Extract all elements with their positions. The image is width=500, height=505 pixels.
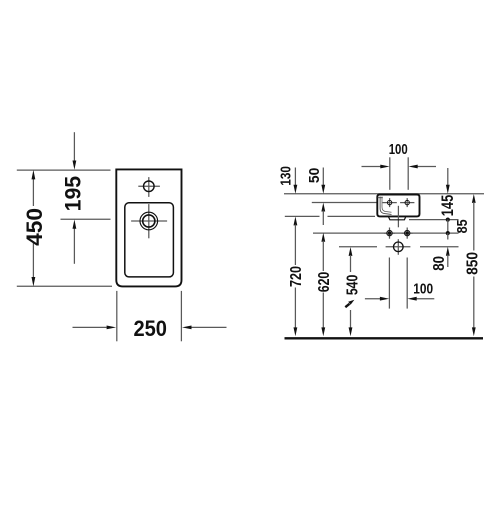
dim 130 top arrow (294, 168, 296, 187)
dim 130 bottom / 720 top arrow (294, 217, 298, 226)
mounting hole right (402, 232, 413, 234)
drain trapezoid below basin (388, 216, 406, 219)
basin outer outline (plan) (116, 169, 181, 286)
dim 540 line (350, 255, 352, 272)
extension line top (450 ref) (17, 169, 111, 171)
arrow 540 bottom (349, 327, 353, 336)
svg-text:720: 720 (288, 266, 305, 287)
tap hole right (elevation) (400, 202, 414, 204)
tap hole (plan) circle (144, 181, 155, 192)
svg-text:100: 100 (413, 281, 433, 298)
arrow 620 bottom (321, 327, 325, 336)
lower 100 extension lines (388, 258, 390, 309)
dim 50 top arrow (322, 168, 324, 187)
drain outer circle (140, 212, 158, 230)
top 100 right arrow (416, 166, 436, 168)
dim 50 bottom arrow (321, 203, 325, 212)
arrow 450 bottom (32, 277, 36, 287)
extension lines 250 (116, 291, 118, 341)
dot 145 end (446, 218, 450, 222)
drain circle (elevation) (394, 242, 404, 252)
fixing bottom level line (409, 219, 459, 221)
drain level line (339, 246, 377, 248)
svg-text:100: 100 (389, 141, 408, 158)
540 annotation diagonal arrow (345, 304, 349, 307)
dot 85 end (446, 231, 450, 235)
mounting hole left (384, 232, 395, 234)
svg-text:145: 145 (439, 195, 457, 217)
dim 720 line (294, 225, 296, 266)
tap hole level line (312, 202, 377, 204)
tap hole (plan) crosshair (138, 185, 160, 187)
svg-text:620: 620 (316, 272, 333, 293)
arrow 850 bottom (472, 327, 476, 336)
basin interior profile (380, 197, 391, 215)
svg-text:450: 450 (22, 208, 47, 246)
rim level line (284, 193, 484, 195)
drain (elevation) crosshair (386, 246, 411, 248)
drain (plan) crosshair (131, 220, 167, 222)
tap hole left (elevation) (383, 202, 397, 204)
dim 850 line (473, 202, 475, 251)
extension line 195 lower ref (61, 218, 111, 220)
basin inner bowl rect (125, 203, 174, 277)
dimension 195 arrows (73, 132, 75, 164)
arrow 450 top (32, 170, 36, 180)
drain inner circle (143, 215, 155, 227)
dimension 250 left arrow (73, 326, 107, 328)
dim 620 line (322, 241, 324, 271)
dim 145 top arrow (447, 168, 449, 186)
extension line bottom (450 ref) (17, 285, 112, 287)
svg-text:50: 50 (306, 168, 323, 184)
dimension 450 line (32, 179, 34, 207)
svg-text:80: 80 (431, 256, 448, 271)
dimension 250 right arrow (192, 326, 227, 328)
dim 85 line (447, 220, 449, 234)
mounting holes level line (313, 232, 459, 234)
lower 100 left arrow (365, 298, 382, 300)
basin bottom level line (285, 215, 320, 217)
svg-text:540: 540 (344, 275, 361, 296)
top 100 extension lines (389, 157, 391, 190)
dim 850 top arrow (472, 194, 476, 203)
dim 80 stub (447, 233, 449, 239)
lower 100 right arrow (415, 298, 434, 300)
svg-text:130: 130 (278, 166, 295, 186)
floor line (285, 337, 484, 339)
basin center line (397, 206, 399, 228)
dim 80 bottom arrow (446, 247, 450, 256)
arrow 720 bottom (294, 327, 298, 336)
svg-text:195: 195 (60, 176, 85, 212)
dim 540 top arrow (349, 247, 353, 256)
dim 620 top arrow (321, 233, 325, 242)
basin body (elevation) (377, 195, 419, 217)
svg-text:250: 250 (133, 316, 167, 341)
top 100 left arrow (362, 166, 382, 168)
svg-text:85: 85 (454, 219, 471, 233)
svg-text:850: 850 (464, 252, 481, 275)
